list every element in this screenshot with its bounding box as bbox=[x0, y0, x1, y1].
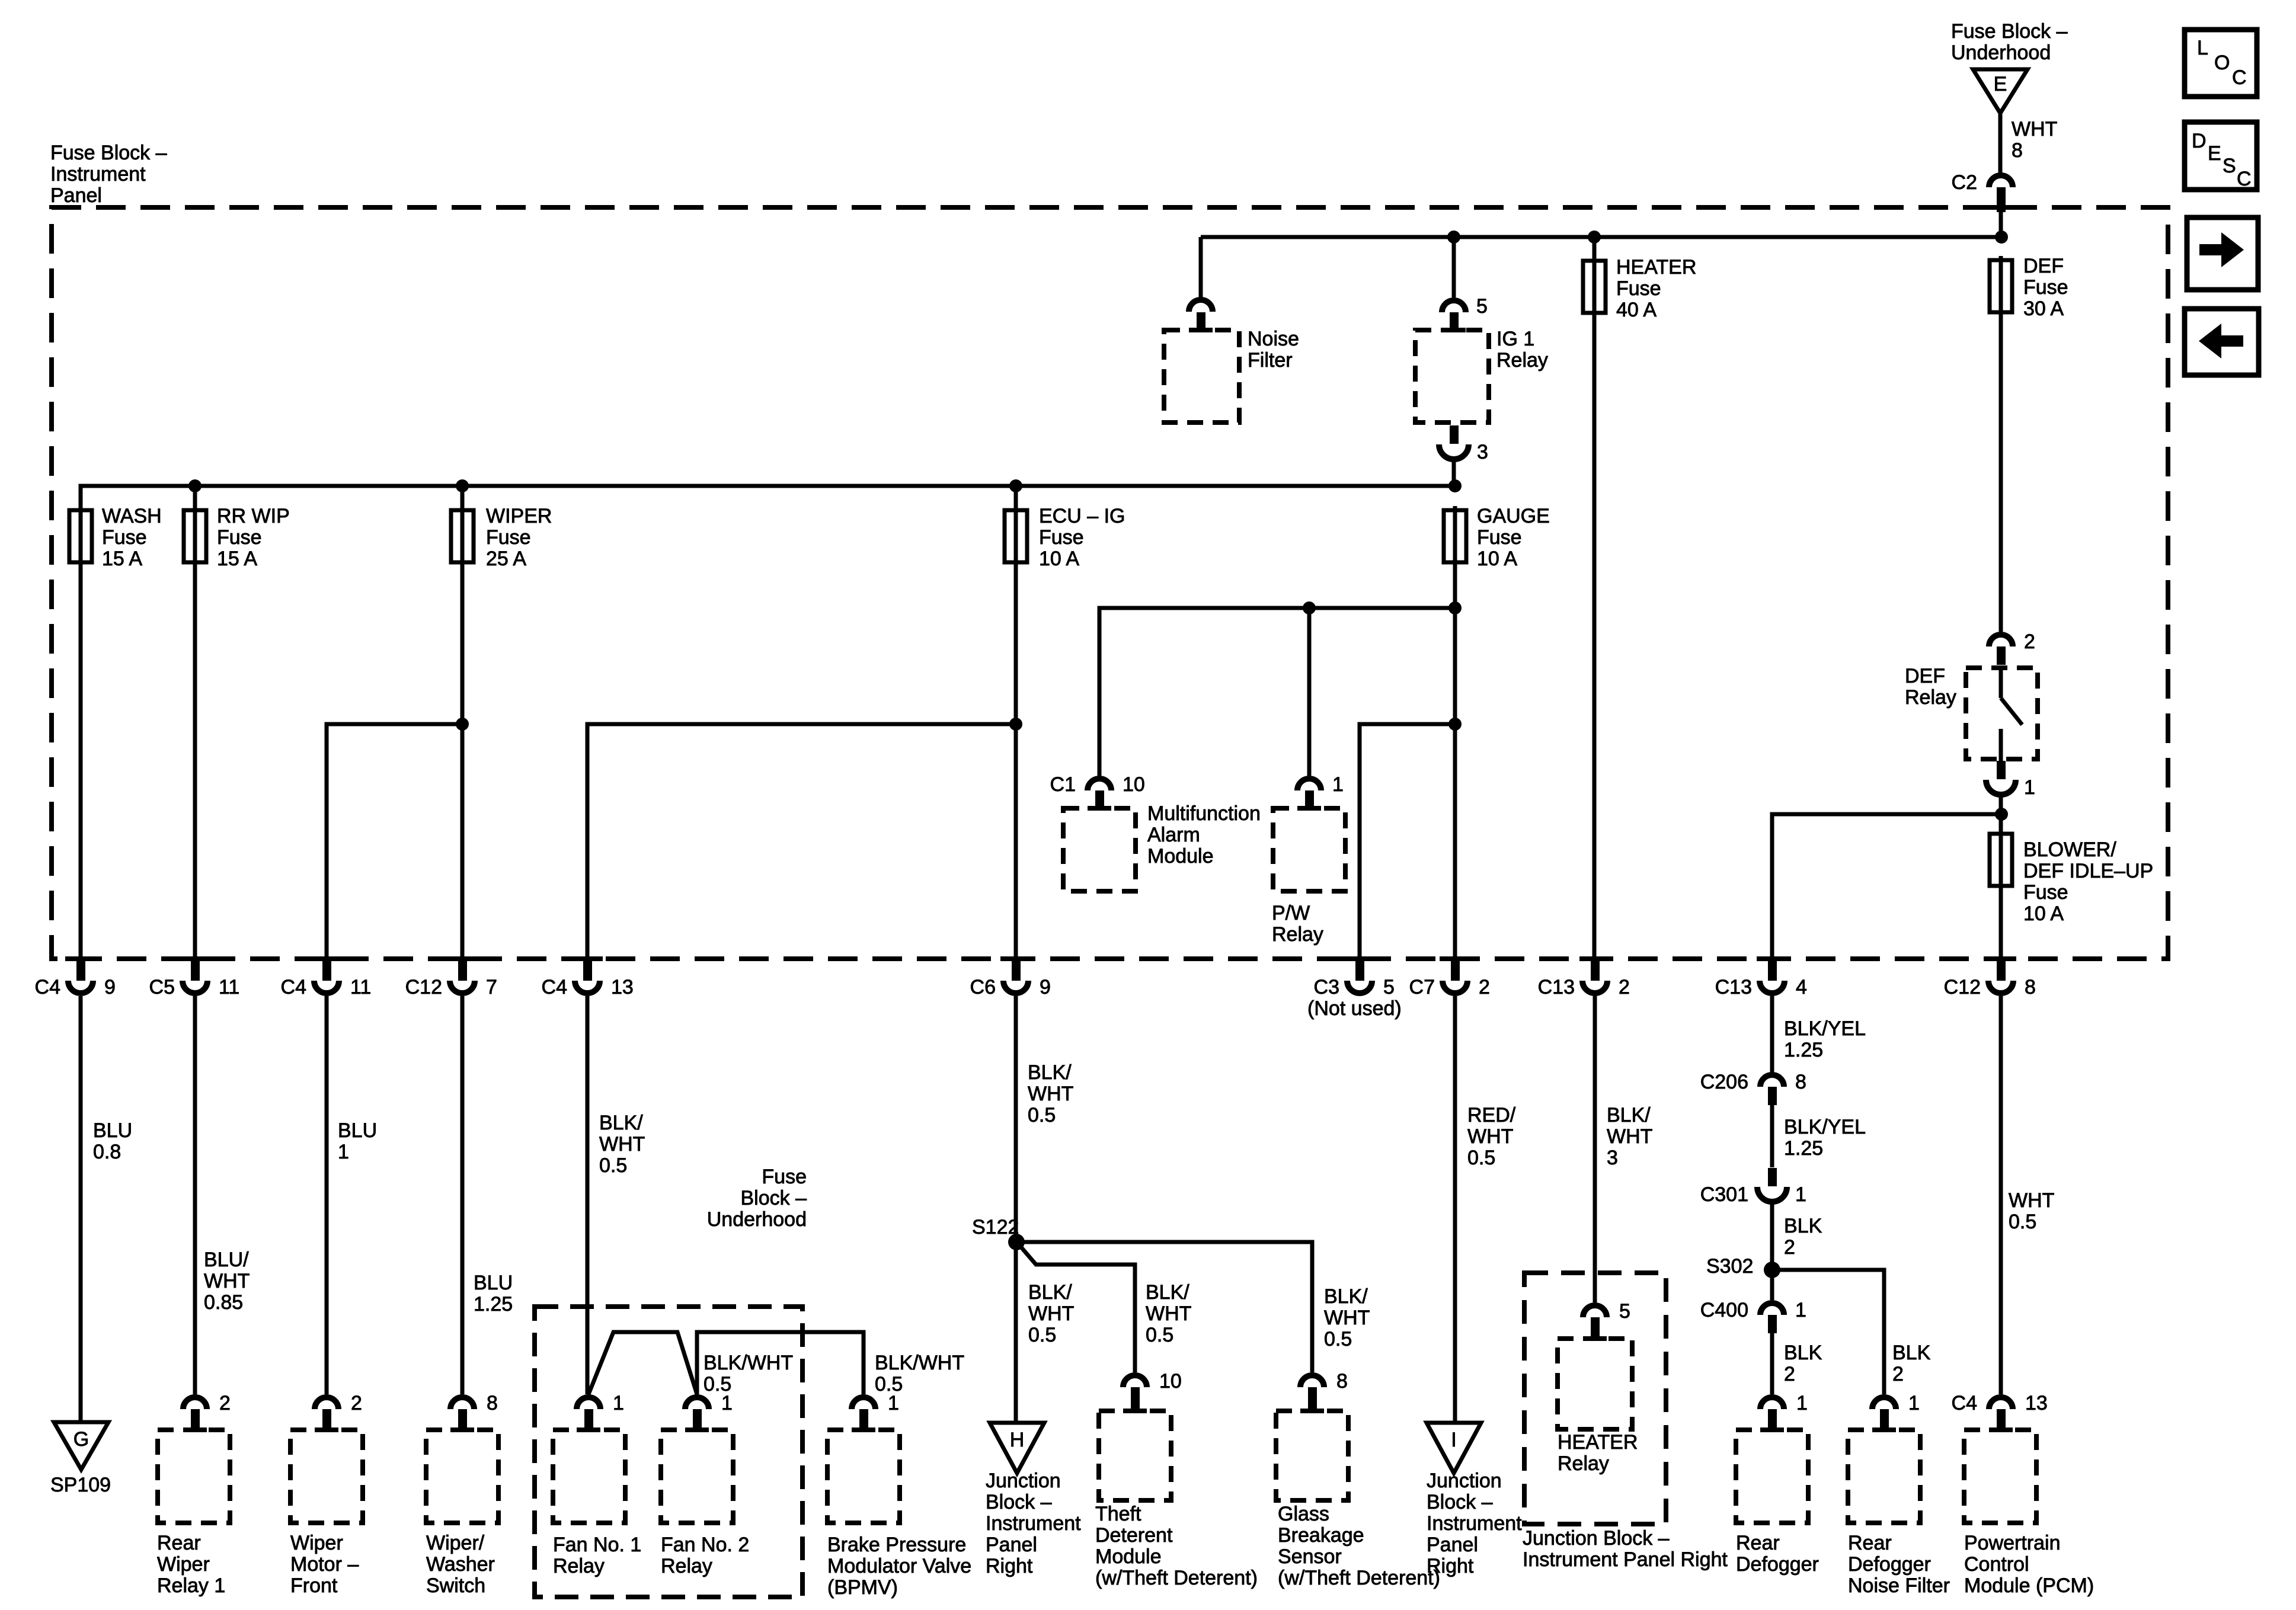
wire C2 to power bus bbox=[1999, 209, 2003, 237]
node SP109 label bbox=[50, 1474, 111, 1496]
wire S302 to rear defogger noise filter bbox=[1772, 1270, 1884, 1394]
svg-text:Switch: Switch bbox=[426, 1574, 485, 1597]
DEF relay pin 2 connector bbox=[1989, 630, 2035, 665]
svg-text:Defogger: Defogger bbox=[1736, 1553, 1819, 1576]
junction C3 feed bbox=[1448, 718, 1462, 731]
svg-text:DEF: DEF bbox=[2023, 255, 2064, 277]
C2 border bar bbox=[1985, 205, 2016, 210]
connector C1 pin 10 (MFA) bbox=[1050, 773, 1145, 811]
svg-text:H: H bbox=[1010, 1429, 1025, 1451]
svg-text:2: 2 bbox=[1892, 1363, 1904, 1385]
svg-text:Block –: Block – bbox=[1427, 1491, 1493, 1513]
rear wiper relay 1 label bbox=[157, 1532, 225, 1597]
fan no.1 relay box bbox=[553, 1430, 625, 1523]
svg-text:Fuse Block –: Fuse Block – bbox=[50, 142, 167, 164]
svg-text:Fan No. 2: Fan No. 2 bbox=[661, 1534, 749, 1556]
svg-text:Module: Module bbox=[1147, 845, 1214, 868]
svg-text:1.25: 1.25 bbox=[474, 1293, 513, 1315]
wire label RED/WHT 0.5 bbox=[1467, 1104, 1516, 1169]
connector C7 pin 2 bbox=[1409, 956, 1490, 998]
svg-text:Underhood: Underhood bbox=[707, 1208, 807, 1231]
svg-text:C7: C7 bbox=[1409, 976, 1435, 998]
svg-text:BLK/YEL: BLK/YEL bbox=[1784, 1116, 1866, 1138]
svg-text:G: G bbox=[73, 1428, 89, 1451]
svg-text:Relay: Relay bbox=[1905, 686, 1956, 709]
svg-text:2: 2 bbox=[1619, 976, 1630, 998]
svg-text:WHT: WHT bbox=[1324, 1307, 1370, 1329]
svg-text:WHT: WHT bbox=[204, 1270, 250, 1292]
wire MFA feed line bbox=[1099, 608, 1455, 776]
connector C12 pin 8 bbox=[1944, 956, 2036, 998]
svg-text:Right: Right bbox=[986, 1555, 1033, 1577]
svg-text:15 A: 15 A bbox=[217, 548, 257, 570]
wire BLK/WHT 0.5 C6 to S122 bbox=[1014, 996, 1018, 1423]
svg-text:11: 11 bbox=[350, 976, 371, 998]
wire ECU branch to C4-13 bbox=[587, 724, 1016, 959]
svg-text:Noise Filter: Noise Filter bbox=[1848, 1574, 1950, 1597]
wire DEF relay to blower junction bbox=[1999, 794, 2003, 832]
svg-text:8: 8 bbox=[1795, 1071, 1806, 1093]
svg-text:C12: C12 bbox=[1944, 976, 1981, 998]
wire label WHT 8 bbox=[2012, 118, 2057, 162]
svg-text:Modulator Valve: Modulator Valve bbox=[827, 1555, 971, 1577]
heater relay pin 5 connector bbox=[1583, 1300, 1630, 1341]
svg-text:Instrument: Instrument bbox=[1427, 1512, 1522, 1535]
wire ECU-IG fuse down bbox=[1014, 564, 1018, 959]
svg-text:3: 3 bbox=[1477, 441, 1488, 463]
splice S122 bbox=[1008, 1234, 1025, 1250]
DESC legend box bbox=[2185, 122, 2257, 190]
wire label BLU 1.25 bbox=[474, 1272, 513, 1315]
svg-text:Motor –: Motor – bbox=[290, 1553, 359, 1576]
DEF relay switch bbox=[2001, 668, 2022, 761]
svg-text:40 A: 40 A bbox=[1616, 299, 1657, 321]
svg-text:5: 5 bbox=[1619, 1300, 1630, 1323]
P/W relay pin 1 connector bbox=[1297, 773, 1344, 811]
WASH fuse 15A bbox=[69, 505, 162, 570]
svg-text:9: 9 bbox=[104, 976, 116, 998]
connector C301 pin 1 bbox=[1700, 1168, 1806, 1206]
svg-text:RR WIP: RR WIP bbox=[217, 505, 290, 527]
wire ECU-IG bus drop bbox=[1014, 486, 1018, 508]
junction at IG1 relay column bbox=[1447, 231, 1460, 244]
wire label BLK/WHT 0.5 (glass) bbox=[1324, 1285, 1370, 1350]
svg-text:1: 1 bbox=[1795, 1299, 1806, 1321]
wire BLK/YEL 1.25 upper bbox=[1770, 996, 1774, 1073]
svg-text:Relay: Relay bbox=[1558, 1452, 1609, 1475]
junction block label (I) bbox=[1427, 1470, 1522, 1577]
wiper motor - front label bbox=[290, 1532, 359, 1597]
svg-text:0.5: 0.5 bbox=[1467, 1147, 1495, 1169]
noise filter label bbox=[1248, 328, 1299, 372]
svg-text:2: 2 bbox=[2024, 630, 2035, 653]
svg-text:S302: S302 bbox=[1706, 1255, 1753, 1278]
svg-text:Junction Block –: Junction Block – bbox=[1523, 1527, 1670, 1550]
svg-text:0.8: 0.8 bbox=[93, 1141, 121, 1163]
svg-text:Rear: Rear bbox=[1848, 1532, 1892, 1554]
HEATER fuse 40A bbox=[1583, 256, 1696, 321]
wire fan no.2 to BPMV bbox=[697, 1332, 864, 1394]
power bus wire bbox=[1201, 235, 2001, 239]
wiper/washer switch box bbox=[426, 1430, 498, 1523]
svg-text:C301: C301 bbox=[1700, 1183, 1748, 1206]
svg-text:2: 2 bbox=[1479, 976, 1490, 998]
left fuse bus wire bbox=[81, 486, 1455, 510]
svg-text:Panel: Panel bbox=[986, 1534, 1037, 1556]
svg-text:WHT: WHT bbox=[1146, 1302, 1191, 1325]
svg-text:HEATER: HEATER bbox=[1558, 1431, 1638, 1454]
svg-text:Fan No. 1: Fan No. 1 bbox=[553, 1534, 641, 1556]
svg-text:S122: S122 bbox=[972, 1216, 1019, 1238]
svg-text:Fuse: Fuse bbox=[1616, 277, 1661, 300]
wire blower fuse to C12-8 bbox=[1999, 885, 2003, 959]
heater relay label bbox=[1558, 1431, 1638, 1475]
powertrain control module box bbox=[1964, 1430, 2036, 1523]
svg-text:11: 11 bbox=[219, 976, 239, 998]
svg-text:Deterent: Deterent bbox=[1095, 1524, 1173, 1547]
svg-text:4: 4 bbox=[1796, 976, 1807, 998]
wire WIPER bus drop bbox=[461, 486, 465, 508]
wire RR WIP bus drop bbox=[193, 486, 197, 508]
BPMV pin 1 connector bbox=[852, 1392, 899, 1432]
IG 1 relay pin 5 connector bbox=[1442, 295, 1488, 332]
svg-text:Right: Right bbox=[1427, 1555, 1474, 1577]
wire junction to C13-4 column bbox=[1772, 814, 2001, 959]
svg-text:1: 1 bbox=[888, 1392, 899, 1414]
rear defogger box bbox=[1736, 1430, 1808, 1523]
svg-text:C4: C4 bbox=[35, 976, 60, 998]
IG 1 relay pin 3 connector bbox=[1439, 425, 1488, 463]
svg-text:Front: Front bbox=[290, 1574, 338, 1597]
svg-text:RED/: RED/ bbox=[1467, 1104, 1516, 1126]
DEF relay box bbox=[1966, 668, 2038, 759]
svg-text:Fuse: Fuse bbox=[1477, 526, 1522, 549]
svg-text:7: 7 bbox=[486, 976, 497, 998]
wire IG1 pin 3 to left fuse bus bbox=[1452, 459, 1456, 486]
glass breakage sensor label bbox=[1278, 1503, 1440, 1589]
wire bus to HEATER fuse bbox=[1593, 237, 1597, 261]
wire BLU 1.25 bbox=[461, 996, 465, 1394]
RR WIP fuse 15A bbox=[184, 505, 290, 570]
svg-text:9: 9 bbox=[1040, 976, 1051, 998]
connector C6 pin 9 bbox=[970, 956, 1051, 998]
svg-text:HEATER: HEATER bbox=[1616, 256, 1696, 279]
svg-text:Fuse: Fuse bbox=[102, 526, 147, 549]
svg-text:BLK: BLK bbox=[1784, 1342, 1822, 1364]
wire RR WIP fuse to C5-11 bbox=[193, 564, 197, 959]
connector C4 pin 9 bbox=[35, 956, 116, 998]
DEF relay pin 1 connector bbox=[1986, 761, 2035, 799]
svg-text:1: 1 bbox=[721, 1392, 733, 1414]
theft deterent module pin 10 connector bbox=[1123, 1370, 1182, 1413]
junction GAUGE fuse bbox=[1448, 479, 1462, 492]
svg-text:Panel: Panel bbox=[1427, 1534, 1478, 1556]
svg-text:Powertrain: Powertrain bbox=[1964, 1532, 2061, 1554]
junction blower/C13-4 bbox=[1995, 808, 2008, 821]
noise filter pin connector bbox=[1189, 300, 1213, 332]
svg-text:Rear: Rear bbox=[157, 1532, 201, 1554]
rear defogger noise filter label bbox=[1848, 1532, 1950, 1597]
IG 1 relay box bbox=[1415, 330, 1489, 422]
svg-text:10: 10 bbox=[1123, 773, 1145, 796]
wire bus to noise filter bbox=[1199, 237, 1203, 297]
svg-text:Instrument: Instrument bbox=[50, 163, 146, 185]
connector E (fuse block - underhood) bbox=[1973, 69, 2028, 113]
svg-text:GAUGE: GAUGE bbox=[1477, 505, 1550, 527]
svg-text:Block –: Block – bbox=[986, 1491, 1052, 1513]
glass breakage sensor box bbox=[1276, 1411, 1348, 1500]
wire BLU 1 bbox=[325, 996, 329, 1394]
fuse block - underhood box bbox=[535, 1307, 802, 1597]
svg-text:8: 8 bbox=[1336, 1370, 1348, 1393]
svg-text:Brake Pressure: Brake Pressure bbox=[827, 1534, 966, 1556]
rear wiper relay pin 2 connector bbox=[183, 1392, 231, 1432]
svg-text:Wiper/: Wiper/ bbox=[426, 1532, 485, 1554]
svg-text:BLK/: BLK/ bbox=[1146, 1281, 1189, 1304]
svg-text:1: 1 bbox=[613, 1392, 624, 1414]
svg-text:Panel: Panel bbox=[50, 184, 102, 207]
svg-text:Fuse: Fuse bbox=[1039, 526, 1084, 549]
svg-text:BLU: BLU bbox=[474, 1272, 513, 1294]
wire between C206 and C301 bbox=[1770, 1104, 1774, 1167]
wire WHT 8 from E to C2 bbox=[1998, 113, 2003, 174]
svg-text:8: 8 bbox=[2025, 976, 2036, 998]
ECU-IG fuse 10A bbox=[1005, 505, 1125, 570]
svg-text:10 A: 10 A bbox=[1477, 548, 1517, 570]
svg-text:0.5: 0.5 bbox=[1028, 1104, 1056, 1126]
wire label BLK 2 (above S302) bbox=[1784, 1215, 1822, 1259]
junction at DEF fuse column bbox=[1995, 231, 2008, 244]
svg-text:Noise: Noise bbox=[1248, 328, 1299, 350]
svg-text:Fuse: Fuse bbox=[2023, 881, 2068, 904]
svg-text:8: 8 bbox=[2012, 139, 2023, 162]
BLOWER/DEF IDLE-UP fuse 10A bbox=[1990, 830, 2153, 925]
fan no.2 relay box bbox=[661, 1430, 733, 1523]
svg-text:BLK/: BLK/ bbox=[1324, 1285, 1368, 1308]
IG 1 relay label bbox=[1496, 328, 1548, 372]
rear defogger label bbox=[1736, 1532, 1819, 1576]
P/W relay box bbox=[1273, 808, 1345, 891]
svg-text:C1: C1 bbox=[1050, 773, 1076, 796]
svg-text:15 A: 15 A bbox=[102, 548, 142, 570]
svg-text:Fuse: Fuse bbox=[2023, 276, 2068, 299]
svg-text:C206: C206 bbox=[1700, 1071, 1748, 1093]
svg-text:WIPER: WIPER bbox=[486, 505, 552, 527]
rear defogger noise filter pin 1 connector bbox=[1872, 1392, 1920, 1432]
svg-text:BLK/: BLK/ bbox=[1607, 1104, 1651, 1126]
svg-text:Filter: Filter bbox=[1248, 349, 1293, 372]
connector C13 pin 2 bbox=[1538, 956, 1630, 998]
svg-text:13: 13 bbox=[611, 976, 634, 998]
svg-text:Junction: Junction bbox=[986, 1470, 1061, 1492]
svg-text:DEF IDLE–UP: DEF IDLE–UP bbox=[2023, 860, 2153, 882]
splice S302 label bbox=[1706, 1255, 1753, 1278]
svg-text:30 A: 30 A bbox=[2023, 297, 2064, 320]
connector C400 pin 1 bbox=[1700, 1299, 1806, 1333]
wire WHT 0.5 to PCM bbox=[1999, 996, 2003, 1394]
LOC legend box bbox=[2185, 30, 2257, 97]
C3 not used note bbox=[1307, 997, 1402, 1020]
svg-text:Instrument Panel Right: Instrument Panel Right bbox=[1523, 1548, 1728, 1571]
svg-text:(w/Theft Deterent): (w/Theft Deterent) bbox=[1278, 1567, 1440, 1589]
svg-text:Relay: Relay bbox=[1496, 349, 1548, 372]
junction MFA feed bbox=[1448, 601, 1462, 614]
svg-text:Relay: Relay bbox=[661, 1555, 712, 1577]
junction P/W relay drop bbox=[1303, 601, 1316, 614]
wire fork to fan no.2 bbox=[589, 1332, 697, 1394]
svg-text:Fuse: Fuse bbox=[762, 1166, 807, 1188]
wire label BLK 2 (defogger) bbox=[1784, 1342, 1822, 1385]
svg-text:C5: C5 bbox=[149, 976, 175, 998]
svg-text:3: 3 bbox=[1607, 1147, 1618, 1169]
svg-text:1.25: 1.25 bbox=[1784, 1137, 1823, 1160]
wire BLK 2 to S302 bbox=[1770, 1201, 1774, 1300]
svg-text:Relay: Relay bbox=[553, 1555, 605, 1577]
fuse block - underhood label (bottom) bbox=[707, 1166, 807, 1231]
fuse block - underhood label (top) bbox=[1951, 20, 2068, 64]
svg-text:BLU: BLU bbox=[93, 1119, 132, 1142]
svg-text:(Not used): (Not used) bbox=[1307, 997, 1402, 1020]
wire label BLK/YEL 1.25 (lower) bbox=[1784, 1116, 1866, 1160]
svg-text:S: S bbox=[2223, 155, 2236, 177]
svg-text:Module (PCM): Module (PCM) bbox=[1964, 1574, 2094, 1597]
connector C4 pin 13 bbox=[542, 956, 634, 998]
svg-text:2: 2 bbox=[351, 1392, 362, 1414]
svg-text:13: 13 bbox=[2025, 1392, 2048, 1414]
svg-text:I: I bbox=[1451, 1429, 1456, 1451]
svg-text:IG 1: IG 1 bbox=[1496, 328, 1534, 350]
svg-text:2: 2 bbox=[1784, 1363, 1795, 1385]
svg-text:Instrument: Instrument bbox=[986, 1512, 1081, 1535]
svg-text:C6: C6 bbox=[970, 976, 996, 998]
svg-text:C13: C13 bbox=[1715, 976, 1752, 998]
splice S122 label bbox=[972, 1216, 1019, 1238]
wire P/W relay drop bbox=[1307, 608, 1312, 776]
svg-text:Breakage: Breakage bbox=[1278, 1524, 1364, 1547]
svg-text:8: 8 bbox=[487, 1392, 498, 1414]
wire RED/WHT 0.5 to I bbox=[1453, 996, 1457, 1423]
svg-text:WHT: WHT bbox=[1607, 1125, 1652, 1148]
svg-text:P/W: P/W bbox=[1272, 902, 1310, 924]
connector C13 pin 4 bbox=[1715, 956, 1807, 998]
svg-text:Relay 1: Relay 1 bbox=[157, 1574, 225, 1597]
svg-text:2: 2 bbox=[219, 1392, 231, 1414]
svg-text:Sensor: Sensor bbox=[1278, 1545, 1342, 1568]
svg-text:(w/Theft Deterent): (w/Theft Deterent) bbox=[1095, 1567, 1258, 1589]
wire WIPER fuse to junction bbox=[461, 564, 465, 959]
svg-text:1: 1 bbox=[1908, 1392, 1920, 1414]
fuse block - instrument panel outline bbox=[52, 207, 2168, 959]
svg-text:WHT: WHT bbox=[2012, 118, 2057, 140]
wire S122 to theft deterent module bbox=[1022, 1248, 1135, 1372]
svg-text:BLK: BLK bbox=[1784, 1215, 1822, 1237]
rear defogger noise filter box bbox=[1848, 1430, 1920, 1523]
svg-text:Junction: Junction bbox=[1427, 1470, 1502, 1492]
rear defogger pin 1 connector bbox=[1760, 1392, 1808, 1432]
multifunction alarm module label bbox=[1147, 802, 1261, 868]
svg-text:BLK/WHT: BLK/WHT bbox=[703, 1352, 793, 1374]
wire label BLK/WHT 0.5 (fan2) bbox=[703, 1352, 793, 1395]
junction ECU-IG branch bbox=[1009, 718, 1022, 731]
wire label BLK/WHT 0.5 (BPMV) bbox=[875, 1352, 964, 1395]
junction block label (H) bbox=[986, 1470, 1081, 1577]
svg-text:C3: C3 bbox=[1314, 976, 1339, 998]
wire BLK/WHT 0.5 to fan fork bbox=[586, 996, 590, 1394]
svg-text:Theft: Theft bbox=[1095, 1503, 1141, 1525]
svg-text:Block –: Block – bbox=[741, 1187, 807, 1209]
svg-text:E: E bbox=[2208, 142, 2221, 165]
brake pressure modulator valve label bbox=[827, 1534, 971, 1599]
svg-text:10 A: 10 A bbox=[2023, 902, 2064, 925]
svg-text:5: 5 bbox=[1383, 976, 1395, 998]
junction block - instrument panel right label bbox=[1523, 1527, 1728, 1571]
svg-text:BLK/WHT: BLK/WHT bbox=[875, 1352, 964, 1374]
connector H (junction block) bbox=[990, 1423, 1044, 1473]
wire label WHT 0.5 (PCM) bbox=[2009, 1189, 2054, 1233]
wire BLU/WHT 0.85 bbox=[193, 996, 197, 1394]
svg-text:Relay: Relay bbox=[1272, 923, 1323, 946]
svg-text:WHT: WHT bbox=[1467, 1125, 1513, 1148]
svg-text:Rear: Rear bbox=[1736, 1532, 1780, 1554]
svg-text:0.5: 0.5 bbox=[1028, 1324, 1056, 1346]
svg-text:(BPMV): (BPMV) bbox=[827, 1576, 898, 1599]
ground triangle G bbox=[54, 1422, 108, 1470]
WIPER fuse 25A bbox=[451, 505, 552, 570]
svg-text:Control: Control bbox=[1964, 1553, 2029, 1576]
svg-text:25 A: 25 A bbox=[486, 548, 526, 570]
svg-text:C4: C4 bbox=[542, 976, 567, 998]
fan no.1 relay pin 1 connector bbox=[577, 1392, 624, 1432]
PCM pin C4-13 connector bbox=[1952, 1392, 2048, 1432]
svg-text:1: 1 bbox=[1795, 1183, 1806, 1206]
fuse block - instrument panel label bbox=[50, 142, 167, 207]
svg-text:C13: C13 bbox=[1538, 976, 1575, 998]
svg-text:Module: Module bbox=[1095, 1545, 1162, 1568]
svg-text:E: E bbox=[1994, 73, 2007, 95]
wire label BLK/WHT 0.5 (theft) bbox=[1146, 1281, 1191, 1346]
svg-text:DEF: DEF bbox=[1905, 665, 1945, 687]
wire label BLK/YEL 1.25 (upper) bbox=[1784, 1017, 1866, 1061]
svg-text:BLK/: BLK/ bbox=[599, 1112, 643, 1134]
wire DEF fuse to DEF relay pin 2 bbox=[1999, 312, 2003, 632]
svg-text:1: 1 bbox=[1332, 773, 1344, 796]
junction at HEATER fuse column bbox=[1588, 231, 1601, 244]
wire label BLK/WHT 0.5 (H) bbox=[1028, 1281, 1074, 1346]
svg-text:C2: C2 bbox=[1952, 171, 1977, 194]
junction WIPER fuse bbox=[456, 479, 469, 492]
svg-text:0.5: 0.5 bbox=[2009, 1211, 2036, 1233]
wire BLU 0.8 to ground bbox=[79, 996, 83, 1422]
svg-text:1: 1 bbox=[338, 1141, 349, 1163]
svg-text:BLK/: BLK/ bbox=[1028, 1061, 1072, 1084]
junction ECU-IG fuse bbox=[1009, 479, 1022, 492]
svg-text:Fuse: Fuse bbox=[486, 526, 531, 549]
wire label BLU 0.8 bbox=[93, 1119, 132, 1163]
wire WASH fuse to C4-9 bbox=[79, 564, 83, 959]
svg-text:C4: C4 bbox=[1952, 1392, 1977, 1414]
svg-text:Wiper: Wiper bbox=[290, 1532, 343, 1554]
svg-text:C4: C4 bbox=[281, 976, 306, 998]
svg-text:WHT: WHT bbox=[599, 1133, 645, 1156]
DEF fuse 30A bbox=[1990, 255, 2068, 320]
heater relay box bbox=[1558, 1339, 1632, 1429]
connector C206 pin 8 bbox=[1700, 1071, 1806, 1105]
noise filter box bbox=[1164, 330, 1239, 422]
svg-text:SP109: SP109 bbox=[50, 1474, 111, 1496]
svg-text:L: L bbox=[2197, 37, 2208, 59]
wire HEATER fuse to C13-2 bbox=[1593, 312, 1597, 959]
wire label BLK/WHT 3 bbox=[1607, 1104, 1652, 1169]
